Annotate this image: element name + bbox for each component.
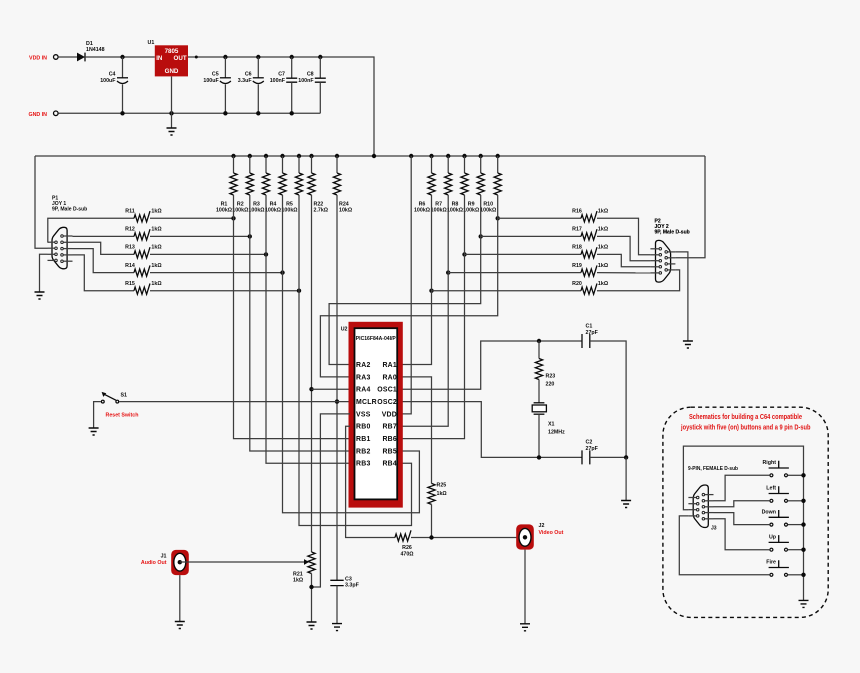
wire OSC1 loop top (402, 341, 583, 389)
resistor R20 1kohm (572, 281, 609, 294)
node bus R8 (462, 154, 466, 158)
svg-text:2.7kΩ: 2.7kΩ (314, 208, 329, 214)
ground under P1 (35, 292, 45, 299)
svg-text:C8: C8 (307, 72, 314, 78)
svg-text:RB3: RB3 (356, 461, 371, 468)
wire to oscillator ground (625, 457, 627, 500)
svg-text:R25: R25 (437, 483, 447, 489)
wire P1 pin to R11 row (48, 218, 135, 242)
svg-text:RB0: RB0 (356, 424, 371, 431)
wire Right to J3 (714, 475, 770, 501)
svg-text:100uF: 100uF (100, 78, 116, 84)
svg-text:100uF: 100uF (203, 78, 219, 84)
button Fire (766, 560, 805, 578)
svg-text:1kΩ: 1kΩ (598, 227, 609, 233)
svg-text:OUT: OUT (174, 55, 187, 62)
svg-text:C7: C7 (278, 72, 285, 78)
resistor R14 1kohm (125, 263, 162, 276)
node RA4 (309, 387, 313, 391)
svg-text:S1: S1 (121, 393, 128, 399)
svg-text:100kΩ: 100kΩ (248, 208, 265, 214)
node R2-R12 (248, 234, 252, 238)
node bus R9 (479, 154, 483, 158)
wire R13 to node R3 (150, 253, 266, 255)
wire Left to J3 (714, 501, 770, 507)
jack J2 Video Out (516, 523, 563, 550)
svg-text:R20: R20 (572, 281, 582, 287)
resistor R3 100kohm (248, 156, 269, 214)
svg-text:GND: GND (165, 68, 179, 75)
resistor R2 100kohm (232, 156, 253, 214)
svg-text:U1: U1 (148, 40, 155, 46)
wire J2 to ground (524, 550, 526, 624)
wire P1 pin to R12 row (73, 235, 135, 237)
svg-text:27pF: 27pF (586, 446, 599, 452)
capacitor C5 100uF (203, 57, 231, 113)
svg-text:1kΩ: 1kΩ (598, 263, 609, 269)
wire Fire to J3 (679, 516, 770, 575)
connector P2 JOY 2 9P Male D-sub (89, 156, 829, 631)
svg-text:1kΩ: 1kΩ (598, 281, 609, 287)
svg-text:U2: U2 (341, 327, 348, 333)
wire node R7 to RB7 (402, 195, 449, 426)
node R7-R19 (446, 270, 450, 274)
svg-text:1kΩ: 1kΩ (598, 209, 609, 215)
svg-text:C6: C6 (245, 72, 252, 78)
wire RA0 to R25 column (402, 377, 432, 484)
wire node R6 to RA1 (402, 195, 432, 365)
svg-text:1kΩ: 1kΩ (151, 281, 162, 287)
svg-text:R15: R15 (125, 281, 135, 287)
wire VDD pin to bus (402, 156, 412, 414)
resistor R25 1kohm (428, 483, 447, 505)
wire node R10 to RA3 (320, 195, 497, 377)
svg-text:1kΩ: 1kΩ (151, 209, 162, 215)
svg-text:RB5: RB5 (382, 448, 397, 455)
resistor R7 100kohm (431, 156, 452, 214)
node R4-R14 (280, 270, 284, 274)
node R6-R20 (429, 289, 433, 293)
svg-text:1kΩ: 1kΩ (151, 263, 162, 269)
connector J3 9-pin female D-sub (688, 485, 716, 532)
wire P1 ground pin (40, 254, 48, 292)
node C8 top (318, 55, 322, 59)
wire RB0 to video row (346, 426, 395, 537)
svg-text:J3: J3 (711, 526, 717, 532)
svg-text:1kΩ: 1kΩ (151, 227, 162, 233)
connector P1 JOY 1 9P Male D-sub (48, 196, 88, 269)
node bus R6 (429, 154, 433, 158)
svg-text:OSC1: OSC1 (377, 387, 397, 394)
wire node R6 to R20 (432, 290, 582, 292)
wire bus to P2 (675, 156, 705, 258)
svg-text:R13: R13 (125, 245, 135, 251)
button Left (766, 486, 805, 503)
wire RA4 pin (312, 388, 351, 390)
wire node R9 to R17 (481, 235, 581, 237)
capacitor C7 100nF (270, 57, 298, 113)
capacitor C8 100nF (298, 57, 326, 113)
wire R20 to P2 (597, 270, 680, 291)
svg-text:27pF: 27pF (586, 330, 599, 336)
svg-text:VDD IN: VDD IN (29, 56, 47, 62)
svg-text:100kΩ: 100kΩ (232, 208, 249, 214)
resistor R1 100kohm (216, 156, 237, 214)
resistor R10 100kohm (480, 156, 501, 214)
ground under U1 (167, 128, 177, 135)
node C7 bottom (290, 111, 294, 115)
svg-text:OSC2: OSC2 (377, 399, 397, 406)
diode D1 1N4148 (77, 41, 105, 61)
svg-text:3.3pF: 3.3pF (345, 583, 360, 589)
svg-text:100nF: 100nF (270, 78, 286, 84)
wire Up to J3 (714, 519, 770, 550)
node R21 bottom (309, 585, 313, 589)
svg-text:VDD: VDD (382, 411, 397, 418)
resistor R15 1kohm (125, 281, 162, 294)
ground under oscillator (621, 501, 631, 508)
wire bus to P1 (35, 156, 48, 248)
node U1 GND (169, 111, 173, 115)
wire node R1 to RB1 (234, 195, 351, 439)
svg-text:R26: R26 (402, 545, 412, 551)
wire R11 to node R1 (150, 217, 234, 219)
svg-text:R23: R23 (546, 374, 556, 380)
wire U1 GND down (171, 76, 173, 128)
wire node R5 to RB4 (299, 195, 412, 526)
wire P2 ground pin (675, 252, 688, 341)
svg-text:R12: R12 (125, 227, 135, 233)
wire diode to U1 IN (85, 56, 155, 58)
svg-text:R18: R18 (572, 245, 582, 251)
wire S1 to MCLR (119, 401, 350, 403)
resistor R4 100kohm (265, 156, 286, 214)
ground under J2 (520, 624, 530, 631)
node MCLR (335, 399, 339, 403)
wire node R2 to RB2 (250, 195, 350, 451)
node C5 bottom (223, 111, 227, 115)
resistor R22 2.7kohm (308, 156, 329, 214)
node R8-R18 (462, 252, 466, 256)
resistor R9 100kohm (463, 156, 484, 214)
ground under J1 (175, 622, 185, 629)
wire GND-in rail (59, 112, 321, 114)
wire VDD bus (35, 155, 705, 157)
svg-text:3.3uF: 3.3uF (238, 78, 253, 84)
wire P1 pin to R15 row (73, 255, 135, 291)
node video junction (429, 535, 433, 539)
svg-text:RB1: RB1 (356, 436, 371, 443)
wire R21 to ground (311, 574, 313, 623)
ground input terminal GND IN (28, 111, 58, 118)
capacitor C3 3.3pF (330, 577, 359, 624)
node R1-R11 (231, 216, 235, 220)
node bus R22 (309, 154, 313, 158)
svg-text:C1: C1 (586, 324, 593, 330)
svg-text:Right: Right (762, 460, 776, 466)
svg-text:Fire: Fire (766, 560, 776, 566)
svg-text:PIC16F84A-04I/P: PIC16F84A-04I/P (356, 336, 397, 342)
resistor R8 100kohm (447, 156, 468, 214)
svg-text:7805: 7805 (165, 48, 179, 55)
svg-text:Reset Switch: Reset Switch (106, 413, 139, 419)
svg-text:9P, Male D-sub: 9P, Male D-sub (52, 207, 87, 213)
svg-text:1kΩ: 1kΩ (437, 491, 448, 497)
svg-text:RA2: RA2 (356, 362, 371, 369)
capacitor C6 3.3uF (238, 57, 264, 113)
svg-text:100kΩ: 100kΩ (480, 208, 497, 214)
node C2 ground junction (624, 455, 628, 459)
svg-text:C4: C4 (109, 72, 116, 78)
svg-text:100kΩ: 100kΩ (463, 208, 480, 214)
resistor R24 10kohm (333, 156, 352, 214)
node VDD-C4 junction (120, 55, 124, 59)
wire J1 to R21 wiper (180, 561, 304, 563)
crystal X1 12MHz (532, 380, 565, 458)
ground under R21 (307, 622, 317, 629)
svg-text:Schematics for building a C64: Schematics for building a C64 compatible (689, 412, 802, 421)
svg-text:1kΩ: 1kΩ (598, 245, 609, 251)
wire VDD-in to diode (59, 56, 77, 58)
svg-text:Down: Down (762, 509, 776, 515)
wire R26 to J2 (411, 537, 525, 539)
wire P1 pin to R13 row (73, 242, 135, 254)
node R23 top (537, 339, 541, 343)
wire J1 to ground (179, 575, 181, 621)
svg-text:100nF: 100nF (298, 78, 314, 84)
svg-text:9P, Male D-sub: 9P, Male D-sub (655, 230, 690, 236)
wire OSC2 loop bottom (402, 402, 583, 458)
capacitor C2 27pF (582, 440, 626, 465)
resistor R11 1kohm (125, 209, 162, 222)
node bus R1 (231, 154, 235, 158)
svg-text:R19: R19 (572, 263, 582, 269)
wire R22 column to RA4 and R21 (311, 195, 313, 552)
svg-text:X1: X1 (548, 422, 555, 428)
resistor R19 1kohm (572, 263, 609, 276)
svg-text:Audio Out: Audio Out (141, 560, 167, 566)
svg-text:100kΩ: 100kΩ (265, 208, 282, 214)
wire joystick common rail (683, 446, 803, 600)
node R3-R13 (264, 252, 268, 256)
ground under S1 (89, 428, 99, 435)
svg-text:1kΩ: 1kΩ (151, 245, 162, 251)
svg-text:100kΩ: 100kΩ (414, 208, 431, 214)
svg-text:1kΩ: 1kΩ (293, 578, 304, 584)
wire R25 to video node (431, 504, 433, 537)
svg-text:100kΩ: 100kΩ (431, 208, 448, 214)
wire node R7 to R19 (448, 272, 581, 274)
resistor R18 1kohm (572, 245, 609, 258)
wire R12 to node R2 (150, 235, 250, 237)
svg-text:MCLR: MCLR (356, 399, 377, 406)
svg-text:RA0: RA0 (382, 374, 397, 381)
svg-text:RB4: RB4 (382, 461, 397, 468)
ground under C3 (332, 624, 342, 631)
resistor R12 1kohm (125, 227, 162, 240)
node C5 top (223, 55, 227, 59)
svg-text:J2: J2 (539, 523, 545, 529)
mcu U2 PIC16F84A-04I/P (341, 322, 403, 508)
wire node R3 to RB3 (266, 195, 350, 463)
wire node R9 to RA2 (329, 195, 481, 365)
svg-text:220: 220 (546, 382, 555, 388)
svg-text:R11: R11 (125, 209, 134, 215)
wire R19 to P2 (597, 272, 650, 274)
node C4 bottom (120, 111, 124, 115)
svg-text:RA4: RA4 (356, 387, 371, 394)
svg-text:VSS: VSS (356, 411, 371, 418)
svg-text:1N4148: 1N4148 (86, 47, 105, 53)
wire R17 to P2 (597, 236, 650, 260)
wire node R4 to RB5 (283, 195, 420, 513)
svg-text:RB6: RB6 (382, 436, 397, 443)
node bus R5 (297, 154, 301, 158)
svg-text:C2: C2 (586, 440, 593, 446)
ground under P2 (683, 341, 693, 348)
node R10-R16 (496, 216, 500, 220)
svg-text:9-PIN, FEMALE D-sub: 9-PIN, FEMALE D-sub (688, 466, 739, 472)
svg-text:RB7: RB7 (382, 424, 397, 431)
node bus R3 (264, 154, 268, 158)
switch S1 (101, 392, 127, 403)
svg-text:RA3: RA3 (356, 374, 371, 381)
svg-text:Left: Left (766, 486, 776, 492)
resistor R23 220 (535, 341, 555, 388)
wire R24 column to MCLR and C3 (336, 195, 338, 580)
power input terminal VDD IN (29, 55, 58, 62)
wire R15 to node R5 (150, 290, 299, 292)
node bus VDD pin feed (409, 154, 413, 158)
svg-text:Video Out: Video Out (539, 530, 564, 536)
ground joystick rail (799, 600, 809, 607)
svg-text:12MHz: 12MHz (548, 430, 565, 436)
wire R18 to P2 (597, 254, 650, 266)
node bus R24 (335, 154, 339, 158)
jack J1 Audio Out (141, 550, 189, 575)
node bus R10 (496, 154, 500, 158)
svg-text:C5: C5 (212, 72, 219, 78)
label schematics title (680, 412, 811, 432)
resistor R6 100kohm (414, 156, 435, 214)
svg-text:470Ω: 470Ω (400, 552, 414, 558)
button Right (762, 460, 805, 477)
wire node R8 to RB6 (402, 195, 465, 439)
wire VSS to R21 bottom (312, 414, 351, 587)
node C6 bottom (256, 111, 260, 115)
wire R16 to P2 (597, 218, 650, 255)
capacitor C4 100uF (100, 57, 128, 113)
regulator U1 7805 (148, 40, 189, 76)
resistor R16 1kohm (572, 209, 609, 222)
wire Down to J3 (714, 513, 770, 525)
svg-text:RA1: RA1 (382, 362, 397, 369)
node R5-R15 (297, 289, 301, 293)
node R9-R17 (479, 234, 483, 238)
button Down (762, 509, 806, 527)
wire R14 to node R4 (150, 272, 283, 274)
wire U1 OUT rail to caps and down to bus (188, 57, 374, 156)
resistor R17 1kohm (572, 227, 609, 240)
button Up (769, 534, 806, 552)
node U1 OUT pin (195, 56, 198, 59)
svg-text:J1: J1 (161, 554, 167, 560)
wire S1 to ground (94, 402, 101, 428)
node bus 7805 feed (372, 154, 376, 158)
svg-text:100kΩ: 100kΩ (216, 208, 233, 214)
resistor R5 100kohm (281, 156, 302, 214)
svg-text:R16: R16 (572, 209, 582, 215)
node bus R4 (280, 154, 284, 158)
node C7 top (290, 55, 294, 59)
node C6 top (256, 55, 260, 59)
resistor R26 470ohm (395, 530, 414, 557)
wire node R10 to R16 (498, 217, 581, 219)
wire node R8 to R18 (465, 253, 582, 255)
capacitor C1 27pF (582, 324, 626, 458)
node X1 bottom (537, 455, 541, 459)
svg-text:R14: R14 (125, 263, 135, 269)
svg-text:joystick with five (on) button: joystick with five (on) buttons and a 9 … (680, 423, 811, 432)
svg-text:10kΩ: 10kΩ (339, 208, 353, 214)
node bus R2 (248, 154, 252, 158)
dashed joystick info box (663, 407, 828, 617)
svg-text:GND IN: GND IN (28, 112, 47, 118)
node bus R7 (446, 154, 450, 158)
wire P1 pin to R14 row (73, 249, 135, 273)
svg-text:R17: R17 (572, 227, 582, 233)
resistor R21 1kohm (293, 552, 315, 584)
svg-text:100kΩ: 100kΩ (447, 208, 464, 214)
svg-text:RB2: RB2 (356, 448, 371, 455)
resistor R13 1kohm (125, 245, 162, 258)
svg-text:100kΩ: 100kΩ (281, 208, 298, 214)
svg-text:IN: IN (156, 55, 163, 62)
svg-text:Up: Up (769, 534, 777, 540)
